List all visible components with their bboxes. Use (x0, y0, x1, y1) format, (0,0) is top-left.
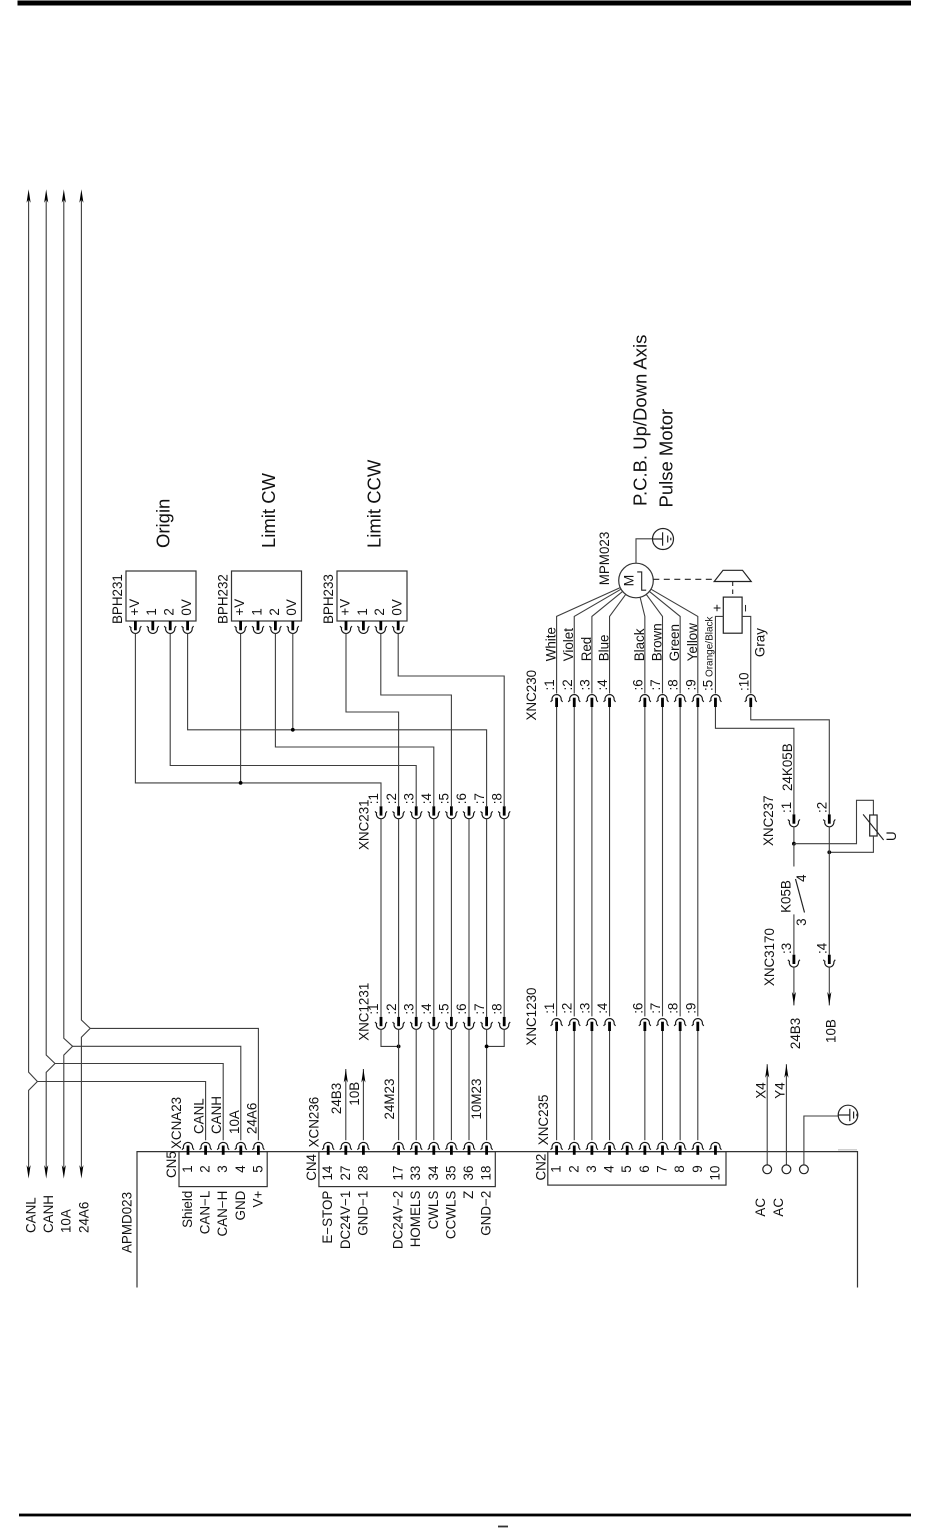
svg-text::4: :4 (814, 942, 829, 954)
XNC3170 pin label :3 (779, 943, 794, 954)
wire XNC230 to XNC1230 (662, 707, 664, 1016)
svg-text:2: 2 (162, 608, 177, 615)
svg-text:33: 33 (408, 1166, 423, 1181)
CN2 pin 9 (692, 1142, 704, 1154)
label lead Red (579, 637, 594, 662)
CN2 pin number 6 (637, 1165, 652, 1172)
label AC 2 (771, 1198, 786, 1217)
wire brake+ to XNC230:5 (715, 616, 723, 693)
XNC230 pin :5 (709, 695, 721, 707)
BPH233 pin label 2 (372, 608, 387, 615)
CN5 signal V+ (250, 1191, 265, 1208)
label BPH233 (321, 574, 336, 624)
XNC1231 pin label :8 (489, 1003, 504, 1014)
wire BPH231 out to XNC231:3 (170, 634, 416, 807)
CN5 pin 1 (182, 1142, 194, 1154)
CN5 pin number 3 (215, 1165, 230, 1172)
svg-text:1: 1 (249, 608, 264, 615)
arrow up net 10A (62, 189, 66, 203)
XNC1231 pin :6 (463, 1017, 475, 1029)
brake coil rectangle (723, 597, 742, 633)
svg-text:2: 2 (566, 1165, 581, 1172)
XNC231 pin label :6 (454, 793, 469, 804)
svg-text:GND−1: GND−1 (355, 1191, 370, 1236)
wire XNC230 to XNC1230 (679, 707, 681, 1016)
label 10B at CN4 (347, 1082, 362, 1106)
svg-text:XNC235: XNC235 (536, 1095, 551, 1146)
label lead Green (667, 624, 682, 661)
XNC1230 pin label :6 (630, 1003, 645, 1014)
svg-text:9: 9 (690, 1165, 705, 1172)
XNC1230 pin label :9 (683, 1003, 698, 1014)
svg-text:3: 3 (584, 1165, 599, 1172)
svg-text::2: :2 (384, 793, 399, 804)
CN4 pin 36 (463, 1142, 475, 1154)
svg-text:0V: 0V (284, 599, 299, 615)
label BPH231 (110, 574, 125, 624)
double-line artifact at box corner (838, 1149, 857, 1151)
XNC230 pin label :2 (560, 679, 575, 690)
svg-text:AC: AC (753, 1198, 768, 1217)
XNC231 pin :3 (410, 806, 422, 818)
XNC1230 pin :1 (551, 1019, 563, 1031)
sensor BPH232 box (232, 571, 302, 621)
XNC3170 pin :4 (823, 955, 835, 967)
wire XNC1231:6 to CN4 36 (468, 1029, 470, 1140)
connector CN4 block (319, 1152, 495, 1187)
label Origin (153, 499, 174, 548)
svg-text::3: :3 (779, 943, 794, 954)
wire Y4 (785, 1064, 787, 1165)
BPH231 pin label 2 (162, 608, 177, 615)
CN2 pin 2 (568, 1142, 580, 1154)
label APMD023 (120, 1192, 135, 1253)
label 24A6 (76, 1202, 91, 1233)
svg-text:X4: X4 (754, 1082, 769, 1099)
svg-text:Pulse Motor: Pulse Motor (655, 409, 676, 508)
svg-text::5: :5 (437, 1003, 452, 1014)
wire XNC230 to XNC1230 (609, 707, 611, 1016)
XNC1231 pin :7 (481, 1017, 493, 1029)
brake dashed link 2 (732, 582, 734, 598)
label 24B3 (net) (788, 1018, 803, 1049)
svg-text::1: :1 (542, 679, 557, 690)
XNC230 pin :1 (551, 695, 563, 707)
XNC231 pin label :2 (384, 793, 399, 804)
XNC230 pin label :10 (736, 672, 751, 691)
CN5 pin number 1 (180, 1165, 195, 1172)
BPH233 pin 0V (392, 621, 404, 633)
wire XNC230 to XNC1230 (644, 707, 646, 1016)
wire XNC1231:3 to CN4 33 (415, 1029, 417, 1140)
wire XNC1230:8 to CN2 (679, 1031, 681, 1140)
wire XNC231:3 to XNC1231:3 (415, 819, 417, 1017)
svg-text:1: 1 (180, 1165, 195, 1172)
svg-text:Blue: Blue (597, 634, 612, 661)
svg-text:APMD023: APMD023 (120, 1192, 135, 1253)
junction XNC1231 1-2 (397, 1045, 401, 1049)
wire XNC230 to XNC1230 (573, 707, 575, 1016)
XNC1231 pin :5 (445, 1017, 457, 1029)
wire motor phase (649, 591, 680, 693)
wire XNC1230:7 to CN2 (662, 1031, 664, 1140)
label Limit CW (258, 472, 279, 548)
wire XNC231:4 to XNC1231:4 (433, 819, 435, 1017)
XNC230 pin label :6 (630, 679, 645, 690)
CN2 pin number 4 (602, 1165, 617, 1173)
wire net CANH (off-page line) (46, 197, 55, 1170)
svg-text:+V: +V (127, 599, 142, 616)
svg-text::9: :9 (683, 1003, 698, 1014)
svg-text:HOMELS: HOMELS (408, 1191, 423, 1248)
BPH231 pin 1 (147, 621, 159, 633)
XNC230 pin label :3 (577, 679, 592, 690)
svg-text:10B: 10B (823, 1019, 838, 1043)
svg-text:DC24V−2: DC24V−2 (391, 1191, 406, 1249)
wire motor phase (557, 588, 621, 694)
CN4 pin 27 (340, 1142, 352, 1154)
XNC1231 pin label :7 (472, 1003, 487, 1014)
CN2 pin number 3 (584, 1165, 599, 1172)
label lead Gray (753, 628, 768, 657)
wire brake- to XNC230:10 (742, 616, 751, 693)
arrow down net CANH (44, 1165, 48, 1179)
connector XNC3170 label (762, 928, 777, 986)
terminal circle PE (800, 1165, 809, 1174)
BPH231 pin 0V (182, 621, 194, 633)
wire XNC3170:3 to 24B3 (793, 967, 795, 1005)
wire net 10A (off-page line) (64, 197, 73, 1170)
junction 0V rail (291, 728, 295, 732)
svg-text::1: :1 (366, 1003, 381, 1014)
CN4 pin 14 (322, 1142, 334, 1154)
wire XNC230 to XNC1230 (697, 707, 699, 1016)
thermal protector U diagonal (863, 814, 884, 840)
BPH231 pin 2 (164, 621, 176, 633)
XNC230 pin :3 (586, 695, 598, 707)
wire XNC1231:1 tie (381, 1029, 399, 1046)
XNC1231 pin label :4 (419, 1003, 434, 1015)
label 24K05B (780, 743, 795, 791)
wire XNC1230:6 to CN2 (644, 1031, 646, 1140)
CN2 pin 4 (604, 1142, 616, 1154)
svg-text:+V: +V (337, 599, 352, 616)
label lead Black (632, 628, 647, 661)
connector XNC230 label (524, 670, 539, 721)
label AC 1 (753, 1198, 768, 1217)
CN5 pin 4 (235, 1142, 247, 1154)
CN4 pin number 34 (426, 1165, 441, 1180)
XNC231 pin :2 (393, 806, 405, 818)
XNC230 pin :2 (568, 695, 580, 707)
svg-text:28: 28 (355, 1166, 370, 1181)
wire motor phase (646, 594, 662, 693)
BPH232 pin 0V (287, 621, 299, 633)
label lead Blue (597, 634, 612, 661)
svg-text::4: :4 (419, 792, 434, 804)
brake trapezoid (714, 570, 751, 581)
label CN4 (304, 1153, 319, 1180)
svg-text::2: :2 (814, 802, 829, 813)
XNC231 pin label :1 (366, 793, 381, 804)
label lead Yellow (685, 623, 700, 662)
BPH231 pin label 0V (179, 599, 194, 615)
XNC237 pin :2 (823, 814, 835, 826)
CN4 pin number 28 (355, 1166, 370, 1181)
svg-text:14: 14 (320, 1165, 335, 1180)
CN4 pin number 35 (443, 1166, 458, 1181)
svg-text::8: :8 (489, 1003, 504, 1014)
svg-text:V+: V+ (250, 1191, 265, 1208)
XNC1230 pin label :4 (595, 1002, 610, 1014)
svg-text:Black: Black (632, 628, 647, 661)
arrow up net CANL (27, 189, 31, 203)
CN5 signal Shield (180, 1191, 195, 1228)
svg-text:4: 4 (233, 1165, 248, 1173)
sensor BPH233 box (337, 571, 407, 621)
svg-text:5: 5 (619, 1165, 634, 1172)
svg-text::4: :4 (419, 1003, 434, 1015)
XNC1231 pin :1 (375, 1017, 387, 1029)
CN5 pin number 2 (198, 1165, 213, 1172)
XNC230 pin label :9 (683, 679, 698, 690)
svg-text:3: 3 (215, 1165, 230, 1172)
wire U bottom to XNC237:2 net (829, 836, 873, 852)
label K05B (778, 880, 793, 913)
CN2 pin number 1 (549, 1165, 564, 1172)
XNC1231 pin :2 (393, 1017, 405, 1029)
svg-text:GND: GND (233, 1190, 248, 1220)
CN2 pin 7 (657, 1142, 669, 1154)
XNC231 pin :8 (498, 806, 510, 818)
svg-text:18: 18 (479, 1166, 494, 1181)
label P.C.B. Up/Down Axis (630, 335, 651, 506)
svg-text::7: :7 (472, 1003, 487, 1014)
svg-text::4: :4 (595, 679, 610, 691)
XNC237 pin label :1 (779, 802, 794, 813)
svg-text::2: :2 (560, 679, 575, 690)
label 24M23 (382, 1079, 397, 1120)
XNC231 pin :4 (428, 806, 440, 818)
XNC1230 pin :6 (639, 1019, 651, 1031)
arrow up X4 (765, 1064, 769, 1078)
svg-text:Red: Red (579, 637, 594, 662)
svg-text:MPM023: MPM023 (597, 532, 612, 586)
wire BPH233 0V to XNC231:8 (398, 634, 504, 807)
junction U / :2 wire (827, 850, 831, 854)
svg-text:CANH: CANH (41, 1195, 56, 1233)
wire motor to earth (636, 539, 652, 563)
label BPH232 (216, 574, 231, 624)
arrow up net 24A6 (79, 189, 83, 203)
CN4 signal CCWLS (443, 1191, 458, 1239)
svg-text::6: :6 (630, 679, 645, 690)
XNC1230 pin :2 (568, 1019, 580, 1031)
svg-text:CN5: CN5 (164, 1151, 179, 1178)
wire BPH232 0V branch (292, 634, 294, 730)
XNC1230 pin :7 (657, 1019, 669, 1031)
arrow down 10B (827, 992, 831, 1006)
wire XNC1230:4 to CN2 (609, 1031, 611, 1140)
CN2 pin 6 (639, 1142, 651, 1154)
XNC230 pin label :5 Orange/Black (701, 615, 716, 691)
label − (brake) (738, 604, 753, 612)
svg-text:+: + (710, 604, 725, 612)
XNC230 pin :9 (692, 695, 704, 707)
label 10A (59, 1209, 74, 1233)
arrow down net 10A (62, 1165, 66, 1179)
label U (884, 831, 899, 841)
wire XNC231:6 to XNC1231:6 (468, 819, 470, 1017)
BPH232 pin label 0V (284, 599, 299, 615)
svg-text:Limit CW: Limit CW (258, 472, 279, 548)
svg-text:CN2: CN2 (534, 1154, 549, 1181)
XNC1230 pin :9 (692, 1019, 704, 1031)
CN2 pin 10 (709, 1142, 721, 1154)
svg-text::5 Orange/Black: :5 Orange/Black (701, 615, 716, 691)
XNC1230 pin label :7 (648, 1003, 663, 1014)
connector XNC1231 label (357, 983, 372, 1041)
XNC230 pin label :7 (648, 679, 663, 690)
BPH231 pin label +V (127, 599, 142, 616)
svg-text:White: White (544, 627, 559, 661)
BPH233 pin label +V (337, 599, 352, 616)
wire BPH233 +V to XNC231:2 (346, 634, 399, 807)
svg-text:M: M (621, 575, 637, 587)
wire motor phase (651, 589, 698, 693)
CN2 pin number 2 (566, 1165, 581, 1172)
svg-text:1: 1 (355, 608, 370, 615)
svg-text:BPH233: BPH233 (321, 574, 336, 624)
CN2 pin 5 (621, 1142, 633, 1154)
BPH232 pin 2 (269, 621, 281, 633)
wire CN4 27 to 24B3 (345, 1069, 347, 1140)
svg-text:5: 5 (250, 1165, 265, 1172)
arrow up 10B (CN4) (361, 1069, 365, 1083)
label MPM023 (597, 532, 612, 586)
BPH233 pin label 0V (390, 599, 405, 615)
svg-text:35: 35 (443, 1166, 458, 1181)
svg-text::3: :3 (401, 793, 416, 804)
page header rule (18, 1, 912, 6)
svg-text:E−STOP: E−STOP (320, 1191, 335, 1244)
CN4 pin 33 (410, 1142, 422, 1154)
wire XNC230:5 to XNC237:1 (715, 707, 793, 814)
wire motor phase (592, 591, 623, 693)
CN5 pin number 4 (233, 1165, 248, 1173)
BPH232 pin 1 (252, 621, 264, 633)
CN4 signal CWLS (426, 1191, 441, 1230)
wire BPH232 +V branch (240, 634, 242, 783)
svg-text:BPH231: BPH231 (110, 574, 125, 624)
CN5 pin 2 (200, 1142, 212, 1154)
label XNC235 (536, 1095, 551, 1146)
svg-text:4: 4 (794, 874, 809, 882)
wire net 24A6 (off-page line) (81, 197, 90, 1170)
CN5 pin 3 (217, 1142, 229, 1154)
XNC1230 pin :8 (674, 1019, 686, 1031)
CN5 signal CAN−H (215, 1191, 230, 1237)
label Limit CCW (364, 459, 385, 548)
arrow down 24B3 (792, 992, 796, 1006)
svg-text:P.C.B. Up/Down Axis: P.C.B. Up/Down Axis (630, 335, 651, 506)
wire motor phase (640, 597, 645, 693)
arrow up 24B3 (CN4) (344, 1069, 348, 1083)
BPH232 pin label +V (232, 599, 247, 616)
XNC231 pin :5 (445, 806, 457, 818)
arrow down net 24A6 (79, 1165, 83, 1179)
svg-text:0V: 0V (179, 599, 194, 615)
wire XNC237:1 down (793, 827, 795, 844)
svg-text:CAN−H: CAN−H (215, 1191, 230, 1237)
label CN5 (164, 1151, 179, 1178)
label lead Violet (561, 628, 576, 662)
svg-text::3: :3 (401, 1003, 416, 1014)
svg-text:10A: 10A (227, 1110, 242, 1134)
XNC1231 pin label :1 (366, 1003, 381, 1014)
XNC230 pin :6 (639, 695, 651, 707)
BPH231 pin +V (129, 621, 141, 633)
svg-text:36: 36 (461, 1166, 476, 1181)
svg-text::8: :8 (666, 1003, 681, 1014)
motor MPM023 circle (619, 563, 654, 598)
svg-text:Violet: Violet (561, 628, 576, 662)
svg-text:CCWLS: CCWLS (443, 1191, 458, 1239)
wire XNC1230:9 to CN2 (697, 1031, 699, 1140)
XNC1230 pin :4 (604, 1019, 616, 1031)
junction XNC1231 8-7 (485, 1045, 489, 1049)
svg-text:XCNA23: XCNA23 (169, 1097, 184, 1149)
wire net CANL (off-page line) (29, 197, 38, 1170)
svg-text::7: :7 (472, 793, 487, 804)
svg-text:Shield: Shield (180, 1191, 195, 1228)
svg-text::3: :3 (577, 1003, 592, 1014)
wire K05B terminal 4 (793, 844, 795, 867)
label + (brake) (710, 604, 725, 612)
svg-text:K05B: K05B (778, 880, 793, 913)
svg-text:GND−2: GND−2 (479, 1191, 494, 1236)
svg-text:CWLS: CWLS (426, 1191, 441, 1230)
CN2 pin number 9 (690, 1165, 705, 1172)
svg-text:34: 34 (426, 1165, 441, 1180)
label CN2 (534, 1154, 549, 1181)
CN4 pin 34 (428, 1142, 440, 1154)
CN5 pin 5 (252, 1142, 264, 1154)
XNC231 pin label :5 (437, 793, 452, 804)
CN4 pin number 33 (408, 1166, 423, 1181)
CN2 pin number 5 (619, 1165, 634, 1172)
wire motor phase (574, 589, 621, 693)
junction XNC237:1 / U (792, 842, 796, 846)
svg-text:8: 8 (672, 1165, 687, 1172)
wire XNC1230:1 to CN2 (556, 1031, 558, 1140)
CN4 signal GND−1 (355, 1191, 370, 1236)
wire XNC230:10 to XNC237:2 (751, 707, 830, 814)
svg-text::1: :1 (542, 1003, 557, 1014)
label lead Brown (650, 623, 665, 661)
XNC230 pin label :4 (595, 679, 610, 691)
relay contact K05B blade (796, 879, 805, 913)
CN4 signal DC24V−1 (338, 1191, 353, 1249)
svg-text::6: :6 (454, 1003, 469, 1014)
wire CANL to CN5 (37, 1082, 205, 1141)
XNC1230 pin label :8 (666, 1003, 681, 1014)
svg-text::7: :7 (648, 679, 663, 690)
BPH232 pin +V (235, 621, 247, 633)
XNC231 pin label :3 (401, 793, 416, 804)
CN4 pin number 36 (461, 1166, 476, 1181)
svg-text:Gray: Gray (753, 628, 768, 657)
